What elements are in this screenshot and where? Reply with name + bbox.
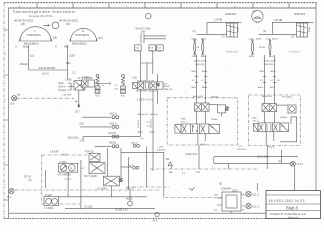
svg-text:70B: 70B [149, 48, 153, 50]
svg-text:40dm: 40dm [309, 26, 311, 32]
svg-text:340.369(9B: 340.369(9B [136, 91, 148, 93]
svg-text:1M: 1M [281, 126, 284, 128]
svg-text:(2): (2) [193, 30, 196, 33]
svg-text:L31.1: L31.1 [252, 204, 259, 208]
svg-text:M60x2(B)(15): M60x2(B)(15) [72, 43, 87, 46]
svg-text:43.2: 43.2 [153, 220, 158, 223]
svg-text:A01a: A01a [138, 131, 144, 134]
svg-text:A05b: A05b [256, 38, 262, 41]
svg-text:A05d: A05d [202, 86, 208, 89]
svg-text:A05c+05d: A05c+05d [193, 95, 204, 98]
svg-text:1.42.8N: 1.42.8N [50, 150, 59, 153]
svg-text:(39)(3): (39)(3) [211, 97, 218, 99]
svg-text:AB1: AB1 [64, 46, 69, 49]
svg-text:A05(a)+(1): A05(a)+(1) [138, 113, 149, 116]
svg-text:M15.X(4): M15.X(4) [68, 137, 78, 140]
svg-text:1.40 PDE: 1.40 PDE [62, 94, 72, 96]
svg-text:ZPD: ZPD [159, 146, 164, 148]
svg-text:48 5B: 48 5B [259, 47, 265, 49]
svg-text:M: M [70, 168, 72, 170]
svg-text:A05d: A05d [272, 38, 278, 41]
svg-text:A05b: A05b [271, 70, 277, 73]
svg-text:2(6): 2(6) [53, 36, 58, 40]
svg-text:35.7: 35.7 [75, 111, 80, 114]
svg-text:Umlauf: Umlauf [226, 50, 238, 53]
svg-text:A05b: A05b [201, 55, 207, 58]
svg-text:380(-)(7): 380(-)(7) [148, 91, 157, 93]
svg-text:A05b: A05b [202, 70, 208, 73]
svg-text:+(B1.1): +(B1.1) [109, 113, 117, 116]
svg-text:40dm: 40dm [238, 26, 240, 32]
svg-text:2002043+: 2002043+ [237, 149, 248, 151]
svg-text:TMB.J(B: TMB.J(B [163, 89, 172, 91]
svg-text:(15): (15) [66, 22, 71, 26]
svg-text:500bar: 500bar [211, 118, 218, 121]
svg-text:AB1a(1): AB1a(1) [20, 63, 29, 66]
svg-text:8(4.1): 8(4.1) [128, 165, 134, 167]
svg-text:MZb.: MZb. [252, 118, 257, 120]
svg-text:04B: 04B [95, 92, 99, 94]
svg-text:15 L: 15 L [7, 196, 12, 199]
svg-text:a(4): a(4) [252, 11, 256, 13]
svg-text:(5): (5) [219, 183, 222, 186]
svg-text:JOSEPH VOEGELE AG: JOSEPH VOEGELE AG [270, 212, 307, 216]
svg-text:PumpA: PumpA [59, 89, 67, 92]
svg-text:X: X [15, 45, 17, 49]
svg-text:MZb.: MZb. [181, 119, 186, 121]
svg-text:8(14.1): 8(14.1) [126, 186, 134, 189]
svg-text:(200bar: (200bar [280, 116, 288, 119]
svg-text:AG05+1(25): AG05+1(25) [194, 59, 206, 62]
svg-text:(11): (11) [30, 54, 34, 57]
svg-text:(1): (1) [73, 71, 76, 74]
svg-text:A05f: A05f [270, 86, 275, 89]
svg-text:30H: 30H [141, 31, 146, 34]
svg-text:AB2: AB2 [66, 62, 71, 65]
svg-text:135D=X(5): 135D=X(5) [137, 99, 153, 102]
svg-text:V.P-240F(B): V.P-240F(B) [58, 173, 71, 176]
svg-text:Him(2)DN: Him(2)DN [282, 97, 292, 99]
svg-text:STROMAG: STROMAG [27, 33, 41, 37]
svg-text:P.04(.25: P.04(.25 [85, 150, 94, 153]
svg-text:74.304: 74.304 [82, 76, 90, 79]
svg-text:L31.2: L31.2 [252, 192, 259, 196]
svg-text:M-7.7-004B: M-7.7-004B [84, 175, 97, 178]
svg-text:4(5)A: 4(5)A [200, 143, 206, 146]
svg-text:A05e+05f: A05e+05f [262, 95, 272, 98]
svg-text:A05e: A05e [249, 55, 255, 58]
svg-text:1.30.NB: 1.30.NB [273, 19, 282, 22]
svg-text:2000443: 2000443 [294, 12, 305, 16]
svg-text:(16A)=(C1): (16A)=(C1) [186, 153, 198, 156]
svg-text:30S: 30S [121, 88, 125, 90]
svg-text:(1) 5.0: (1) 5.0 [42, 73, 50, 76]
svg-text:(A): (A) [17, 94, 20, 97]
svg-text:SO.B 4.2: SO.B 4.2 [151, 118, 153, 128]
svg-text:Tb.JB6.2.05: Tb.JB6.2.05 [115, 208, 129, 211]
svg-text:A05b(0): A05b(0) [150, 113, 158, 116]
svg-text:2000443: 2000443 [225, 12, 236, 16]
svg-text:(15): (15) [21, 22, 26, 26]
svg-text:(5): (5) [29, 179, 32, 182]
svg-text:A(31.8): A(31.8) [108, 132, 116, 135]
svg-text:14a: 14a [169, 171, 174, 174]
svg-text:AB1a: AB1a [23, 46, 30, 49]
svg-text:1(6): 1(6) [98, 36, 103, 40]
svg-text:30.6: 30.6 [10, 103, 15, 106]
svg-text:4(1.9): 4(1.9) [126, 197, 132, 200]
svg-text:Mag.A: Mag.A [268, 145, 275, 148]
svg-text:(7): (7) [222, 36, 225, 39]
svg-text:M05b: M05b [192, 56, 198, 58]
svg-text:A05e: A05e [258, 86, 264, 89]
svg-text:A05b: A05b [150, 131, 156, 134]
svg-text:(13): (13) [133, 76, 137, 79]
svg-text:Gruppe 46-0716-...: Gruppe 46-0716-... [29, 14, 56, 18]
svg-text:(3): (3) [82, 89, 85, 92]
svg-text:+(B1.1): +(B1.1) [109, 122, 117, 125]
svg-text:X: X [55, 45, 57, 49]
svg-text:1.4(B): 1.4(B) [65, 79, 72, 82]
svg-text:1M: 1M [211, 127, 214, 129]
svg-text:Mannheim: Mannheim [288, 217, 298, 219]
svg-text:(21): (21) [118, 180, 122, 183]
svg-text:(3B) (3B): (3B) (3B) [265, 64, 274, 66]
svg-text:STROMAG: STROMAG [75, 33, 89, 37]
svg-text:2.6 (15): 2.6 (15) [84, 206, 92, 209]
svg-text:2000494: 2000494 [221, 187, 232, 191]
svg-text:(2): (2) [263, 30, 266, 33]
svg-text:V.7-045A: V.7-045A [44, 207, 54, 210]
svg-text:(7): (7) [291, 36, 294, 39]
svg-text:1V.B 4.3: 1V.B 4.3 [138, 119, 140, 128]
svg-text:+(1): +(1) [140, 138, 144, 140]
svg-text:(1)50: (1)50 [69, 54, 75, 57]
svg-text:2000343: 2000343 [157, 149, 166, 151]
svg-text:Blatt 8: Blatt 8 [286, 205, 299, 210]
svg-text:270.1+: 270.1+ [181, 122, 188, 124]
svg-text:A01 30.0B M30: A01 30.0B M30 [39, 67, 56, 70]
svg-text:L9.13: L9.13 [297, 163, 304, 166]
svg-text:270.1+: 270.1+ [252, 121, 259, 123]
svg-text:4(B1.D: 4(B1.D [131, 142, 138, 144]
svg-text:1.95: 1.95 [80, 140, 85, 143]
svg-text:46-0452-2552 04 03: 46-0452-2552 04 03 [269, 199, 305, 203]
svg-text:04B: 04B [121, 92, 125, 94]
svg-text:(3B) (3B): (3B) (3B) [196, 64, 205, 66]
svg-text:4(B.B): 4(B.B) [109, 142, 116, 145]
svg-text:M1B(2: M1B(2 [163, 86, 170, 88]
svg-text:(29): (29) [80, 123, 84, 126]
svg-text:rechts: rechts [290, 50, 301, 53]
svg-text:A05f: A05f [269, 55, 274, 58]
svg-text:AG05+1(25): AG05+1(25) [264, 59, 276, 62]
